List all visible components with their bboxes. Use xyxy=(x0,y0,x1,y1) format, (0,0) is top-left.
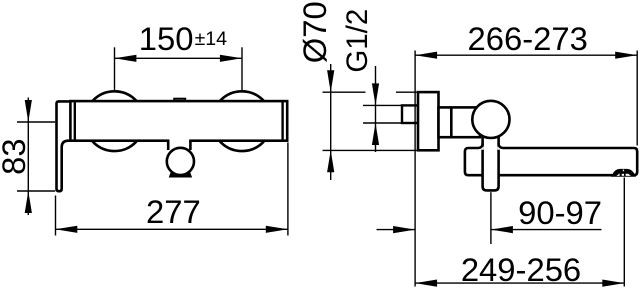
dimension 150 ±14 : dimension line xyxy=(114,57,241,59)
body left cap line xyxy=(74,101,76,141)
dimension 83 : vertical dimension line xyxy=(27,98,29,216)
svg-text:Ø70: Ø70 xyxy=(296,1,333,63)
dimension 277 : right extension line xyxy=(287,143,289,236)
knob circle (lever head) xyxy=(472,101,509,138)
aerator top notch xyxy=(623,170,624,172)
dimension 90-97 : lever axis extension line xyxy=(490,192,492,244)
90-97 arrow pointing right at wall line xyxy=(393,226,415,233)
extension line left (150 dim, from left escutcheon top) xyxy=(114,47,116,91)
svg-text:83: 83 xyxy=(0,138,32,174)
arrow left of 277 dim xyxy=(55,226,77,233)
dimension 266-273 : dimension line xyxy=(415,54,637,56)
90-97 left tail line xyxy=(377,229,416,231)
spout (long tube with mount) xyxy=(465,148,637,175)
arrow left of 150 dim xyxy=(114,55,136,62)
Ø70 arrow up at bottom tick xyxy=(327,150,334,172)
83 top tick (at body axis) xyxy=(17,121,55,123)
dimension 266-273 : right extension line (spout tip) xyxy=(636,51,638,146)
svg-text:266-273: 266-273 xyxy=(468,20,588,57)
arrow right of 249-256 xyxy=(602,280,624,287)
svg-text:90-97: 90-97 xyxy=(518,194,602,231)
arrow left of 249-256 xyxy=(415,280,437,287)
top bump on body (diverter) xyxy=(174,99,185,103)
arrow right of 150 dim xyxy=(220,55,242,62)
Ø70 arrow down at top tick xyxy=(327,70,334,92)
Ø70 top tick (escutcheon top) xyxy=(323,91,366,93)
fillet arc right of lever bar xyxy=(499,143,504,148)
dimension 277 : left extension line xyxy=(55,196,57,236)
body ring line xyxy=(450,107,453,137)
G1/2 arrow down at top tick xyxy=(372,83,379,105)
shower outlet connector (white gap in body bottom line) xyxy=(169,138,189,149)
svg-text:277: 277 xyxy=(146,193,201,230)
G1/2 bottom tick (nipple bottom) xyxy=(363,122,401,124)
aerator white slot right xyxy=(628,173,631,176)
body right cap line xyxy=(281,101,283,141)
body (side view) xyxy=(439,107,481,137)
Ø70 top tick right segment (after G1/2 column break) xyxy=(396,91,417,93)
lever handle (front view, left side) xyxy=(57,101,73,191)
83 bottom tick (at lever bottom) xyxy=(17,190,55,192)
svg-text:±14: ±14 xyxy=(195,28,228,50)
hose nut trapezoid xyxy=(169,169,191,177)
fillet arc left of lever bar xyxy=(478,143,483,148)
wall extension line (266-273 / 249-256 left reference) xyxy=(414,51,416,287)
aerator white slot mid-right xyxy=(626,174,628,176)
fillet patch left of lever bar xyxy=(478,147,484,150)
arrow right of 277 dim xyxy=(266,226,288,233)
svg-text:150: 150 xyxy=(139,20,194,57)
outlet connector left edge xyxy=(167,141,170,150)
extension line right (150 dim, from right escutcheon top) xyxy=(241,47,243,91)
escutcheon circle left xyxy=(85,91,145,151)
90-97 arrow pointing left at lever axis xyxy=(491,226,513,233)
outlet connector right edge xyxy=(189,141,192,150)
dimension 249-256 : right extension line (aerator axis) xyxy=(623,178,625,287)
aerator white slot mid-left xyxy=(622,174,624,176)
aerator white slot left xyxy=(616,173,619,176)
escutcheon (side view) xyxy=(418,92,439,150)
escutcheon circle right xyxy=(212,91,272,151)
G1/2 top tick (nipple top) xyxy=(363,104,401,106)
dimension 249-256 : dimension line xyxy=(415,282,624,284)
90-97 right tail line xyxy=(491,229,602,231)
outlet ball xyxy=(167,148,194,175)
mixer body (front view) xyxy=(70,101,287,141)
dimension 277 : dimension line xyxy=(55,228,287,230)
svg-text:G1/2: G1/2 xyxy=(341,9,374,73)
arrow right of 266-273 xyxy=(615,52,637,59)
83 arrow pointing up at bottom tick xyxy=(25,191,32,213)
Ø70 bottom tick (escutcheon bottom) xyxy=(323,149,418,151)
G1/2 arrow up at bottom tick xyxy=(372,123,379,145)
dimension Ø70 : vertical line xyxy=(330,64,332,180)
wall nipple G1/2 xyxy=(402,105,418,123)
svg-text:249-256: 249-256 xyxy=(461,251,581,288)
aerator at spout tip (black dome) xyxy=(612,170,634,176)
lever bar (side view) xyxy=(483,124,499,190)
dimension G1/2 : vertical line xyxy=(375,66,377,152)
83 arrow pointing down at top tick xyxy=(25,100,32,122)
fillet patch right of lever bar xyxy=(497,147,503,150)
arrow left of 266-273 xyxy=(415,52,437,59)
